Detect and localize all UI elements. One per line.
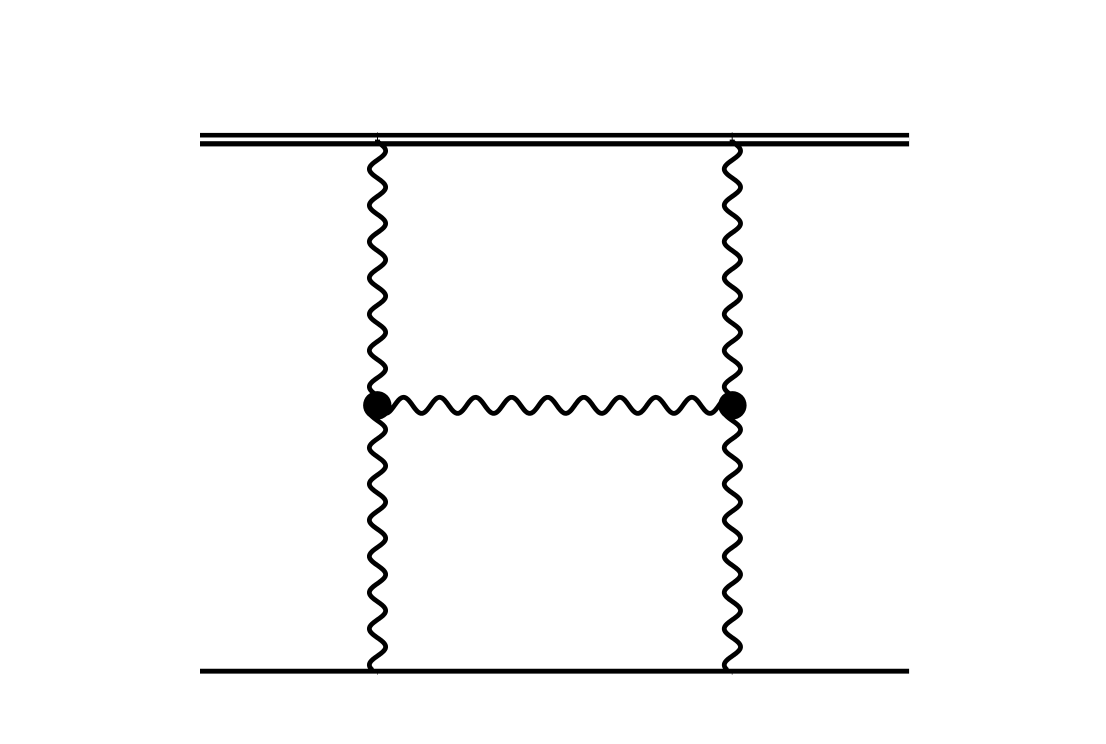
attachment tick (right photon, bottom, faint) xyxy=(731,671,733,675)
double line (top heavy-particle propagator) xyxy=(200,133,909,147)
end cap square (right photon, top) xyxy=(730,140,735,143)
vertex dot (left) xyxy=(363,391,391,419)
photon: right vertical, lower segment xyxy=(724,405,740,670)
photon: right vertical, upper segment xyxy=(724,142,740,405)
photon: left vertical, lower segment xyxy=(369,405,385,670)
photon: left vertical, upper segment xyxy=(369,142,385,405)
bottom fermion line xyxy=(200,669,909,674)
attachment tick (left photon, bottom, faint) xyxy=(377,671,379,675)
vertex dot (right) xyxy=(718,391,746,419)
end cap square (left photon, top) xyxy=(375,140,380,143)
attachment tick (left photon, top) xyxy=(377,133,379,141)
attachment tick (right photon, top) xyxy=(731,133,733,141)
photon: horizontal between vertices xyxy=(378,397,733,413)
